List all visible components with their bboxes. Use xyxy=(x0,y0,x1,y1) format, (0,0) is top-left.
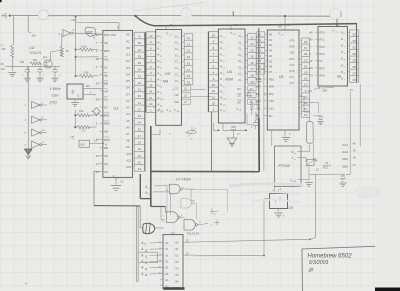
svg-text:V: V xyxy=(332,29,334,33)
svg-text:14: 14 xyxy=(169,111,171,113)
bus line heavy vertical to decoder xyxy=(150,126,152,206)
cpu U1 left pin DB xyxy=(100,146,108,150)
rs232 port box xyxy=(275,146,302,186)
svg-text:23: 23 xyxy=(212,102,216,106)
svg-text:OE: OE xyxy=(237,100,241,104)
svg-text:A11: A11 xyxy=(126,158,131,162)
transistor Q1 xyxy=(43,55,52,68)
cpu U1 left pin ML xyxy=(100,73,109,78)
ram U3 Vcc pin xyxy=(166,32,172,37)
nand gate U7A xyxy=(170,184,228,211)
scanner margin right strip xyxy=(376,0,400,291)
svg-text:A5: A5 xyxy=(126,119,130,123)
svg-text:15: 15 xyxy=(187,55,191,59)
svg-text:CA2: CA2 xyxy=(342,150,348,154)
svg-text:18: 18 xyxy=(304,40,308,44)
svg-text:13: 13 xyxy=(138,114,142,118)
svg-text:21: 21 xyxy=(149,96,153,100)
svg-text:XT1: XT1 xyxy=(290,76,295,79)
svg-text:D5: D5 xyxy=(258,59,262,63)
wire RxD to U5 xyxy=(298,145,310,152)
ram U3 right data pins xyxy=(175,34,184,83)
acia U5 ground below xyxy=(282,130,291,142)
svg-text:D4: D4 xyxy=(269,54,273,58)
resistor 10K to NMI xyxy=(74,109,105,118)
svg-text:VP: VP xyxy=(104,89,108,93)
svg-text:38: 38 xyxy=(96,57,100,61)
label 74LS139 xyxy=(171,231,199,236)
svg-text:D6: D6 xyxy=(258,65,262,69)
svg-text:F2: F2 xyxy=(309,59,313,63)
wire U5 CS down to U9 xyxy=(272,130,274,194)
wire +5 drop to U5 Vcc xyxy=(284,16,286,30)
svg-text:7: 7 xyxy=(344,79,345,81)
title block border xyxy=(302,246,375,291)
svg-text:1K: 1K xyxy=(66,49,70,53)
svg-text:X2: X2 xyxy=(104,98,108,102)
svg-text:29: 29 xyxy=(138,54,142,58)
svg-text:17: 17 xyxy=(250,67,254,71)
svg-text:15: 15 xyxy=(250,55,254,59)
wire U4 Vpp down xyxy=(247,114,253,125)
svg-text:RC: RC xyxy=(269,114,273,118)
svg-text:V: V xyxy=(278,32,280,36)
svg-text:R/W: R/W xyxy=(319,73,325,77)
svg-text:DTR: DTR xyxy=(290,40,295,43)
resistor R1 1M xyxy=(1,43,14,57)
svg-text:15: 15 xyxy=(287,23,291,27)
svg-text:18: 18 xyxy=(250,73,254,77)
title text Homebrew 6502 xyxy=(308,253,353,259)
svg-text:U6: U6 xyxy=(337,75,341,79)
svg-text:CS0: CS0 xyxy=(269,99,275,103)
svg-text:28: 28 xyxy=(234,23,238,27)
svg-text:21: 21 xyxy=(316,168,319,172)
wire U3 WE to bus xyxy=(191,90,212,97)
svg-text:15: 15 xyxy=(96,154,100,158)
svg-text:12: 12 xyxy=(304,83,308,87)
node +5 junction dot xyxy=(9,15,11,17)
svg-text:18: 18 xyxy=(138,141,142,145)
svg-text:R/W: R/W xyxy=(104,138,110,142)
svg-text:D: D xyxy=(341,37,343,41)
svg-text:D1: D1 xyxy=(269,38,273,42)
svg-text:(R): (R) xyxy=(1,62,5,66)
svg-text:D4: D4 xyxy=(258,54,262,58)
svg-text:RST: RST xyxy=(87,31,93,35)
svg-text:PC2: PC2 xyxy=(319,45,325,49)
rom U4 control pins NC CE OE Vpp xyxy=(236,86,256,112)
svg-text:PC3: PC3 xyxy=(319,52,325,56)
svg-text:jp: jp xyxy=(308,267,313,273)
svg-text:24: 24 xyxy=(212,89,216,93)
svg-text:19: 19 xyxy=(304,71,308,75)
box around A11 A13 labels xyxy=(138,252,157,262)
capacitor on U5 clock line with ground xyxy=(313,116,324,125)
svg-text:+5: +5 xyxy=(2,14,8,20)
node junction at U5 power drop xyxy=(284,15,286,17)
wire U3 ground drop xyxy=(151,129,171,136)
svg-text:30: 30 xyxy=(138,41,142,45)
svg-text:D5: D5 xyxy=(126,79,130,83)
svg-text:Can: Can xyxy=(52,94,59,98)
misc marks right of gates xyxy=(210,209,220,228)
svg-text:U4: U4 xyxy=(227,70,232,74)
svg-text:V: V xyxy=(166,32,168,36)
svg-text:16: 16 xyxy=(250,61,254,65)
svg-text:TOUCH: TOUCH xyxy=(29,51,42,55)
svg-text:PT232: PT232 xyxy=(279,164,291,168)
cpu U1 right pin number ladder xyxy=(134,32,144,171)
svg-text:16: 16 xyxy=(187,61,191,65)
decoder U8 output O2 pin 13 xyxy=(183,252,194,255)
svg-text:22: 22 xyxy=(138,160,142,164)
ram U3 control pins CS OE WE xyxy=(172,86,191,105)
svg-text:23: 23 xyxy=(138,74,142,78)
svg-text:RES: RES xyxy=(269,77,275,81)
svg-text:21: 21 xyxy=(212,95,216,99)
oscillator can module 1MHz xyxy=(67,84,83,99)
label A15 input xyxy=(145,184,169,190)
svg-text:D0: D0 xyxy=(126,46,130,50)
decoder U8 left inputs from address bus xyxy=(141,241,164,277)
wire U1 pin down to bottom rail xyxy=(94,172,140,206)
svg-text:XT2: XT2 xyxy=(290,82,295,85)
svg-text:9/3/2003: 9/3/2003 xyxy=(309,260,329,266)
inverter chain gate 2 xyxy=(25,116,48,123)
svg-text:39: 39 xyxy=(96,97,100,101)
resistor 52K to SO pin xyxy=(76,45,99,52)
via U6 VP label xyxy=(336,23,340,27)
cpu U1 left pin EB xyxy=(96,81,108,86)
svg-text:R/W: R/W xyxy=(256,85,262,89)
svg-text:D1: D1 xyxy=(126,53,130,57)
svg-text:P.B.: P.B. xyxy=(20,60,25,64)
svg-text:S0: S0 xyxy=(104,41,108,45)
svg-text:R: R xyxy=(292,150,294,154)
connector KB box xyxy=(79,140,107,147)
wire Gnd to ground xyxy=(298,179,309,181)
capacitor at right of select line xyxy=(341,174,345,182)
wire +5 drop to U6 Vcc xyxy=(336,19,338,27)
svg-text:D6: D6 xyxy=(269,65,273,69)
svg-text:D: D xyxy=(341,63,343,67)
svg-text:D0: D0 xyxy=(269,33,273,37)
wire bus to big gate xyxy=(139,206,141,227)
cpu U1 left pin S0 xyxy=(96,41,108,45)
svg-text:24: 24 xyxy=(350,88,354,92)
eraser smudge marks xyxy=(230,184,380,202)
svg-text:1M: 1M xyxy=(32,34,37,38)
svg-text:A8: A8 xyxy=(309,30,313,34)
svg-text:WE: WE xyxy=(175,100,180,104)
svg-text:D: D xyxy=(341,50,343,54)
ram U3 right pin number ladder xyxy=(184,34,193,85)
svg-text:30: 30 xyxy=(353,52,357,56)
svg-text:0: 0 xyxy=(344,34,345,36)
svg-text:11: 11 xyxy=(138,101,141,105)
svg-text:27: 27 xyxy=(353,72,357,76)
cpu U1 left pin IRQ xyxy=(96,113,110,118)
svg-text:14: 14 xyxy=(96,162,100,166)
ground below inverter chain xyxy=(25,145,33,159)
balloon note RST xyxy=(85,27,96,38)
cpu U1 left pin RST Vdd xyxy=(96,33,116,37)
svg-text:RXD: RXD xyxy=(290,70,295,73)
svg-text:A: A xyxy=(309,45,311,49)
label 15 above U5 xyxy=(287,23,291,27)
acia U5 label center xyxy=(279,75,283,79)
wire Vcc drop to U3 xyxy=(166,23,173,30)
svg-text:+5: +5 xyxy=(70,136,74,140)
svg-text:D: D xyxy=(341,76,343,80)
svg-text:V: V xyxy=(113,174,115,178)
ground below trimmer xyxy=(305,166,313,186)
svg-text:U5: U5 xyxy=(279,75,283,79)
wire 1K to inverter input xyxy=(61,33,63,46)
svg-text:D5: D5 xyxy=(269,59,273,63)
crystal X1 1.8432MHz xyxy=(306,112,313,148)
svg-text:6: 6 xyxy=(344,73,345,75)
svg-text:150: 150 xyxy=(33,58,38,62)
svg-text:NMI: NMI xyxy=(104,122,109,126)
svg-text:11: 11 xyxy=(187,36,190,40)
svg-text:13: 13 xyxy=(187,49,191,53)
inverter gate to RST xyxy=(59,28,75,37)
svg-text:D7: D7 xyxy=(269,70,273,74)
svg-text:29: 29 xyxy=(353,58,357,62)
ground below oscillator xyxy=(71,99,79,106)
svg-text:17: 17 xyxy=(304,107,308,111)
+5V label xyxy=(2,14,8,20)
svg-text:CS1: CS1 xyxy=(269,107,275,111)
wire IO select to U9 xyxy=(194,199,270,257)
svg-text:ROM: ROM xyxy=(226,78,234,82)
decoder U8 body xyxy=(163,235,183,289)
svg-text:D6: D6 xyxy=(126,86,130,90)
address bus vertical at U8 xyxy=(137,207,139,283)
cpu U1 left pin AB xyxy=(100,130,108,134)
svg-text:A5: A5 xyxy=(104,154,108,158)
diamond connector node xyxy=(91,108,100,116)
ram U3 body xyxy=(156,30,182,126)
svg-text:10a: 10a xyxy=(79,109,84,113)
ground below U9 xyxy=(274,209,285,219)
acia U5 Vcc pin xyxy=(278,32,284,37)
via U6 CA CB pin list xyxy=(342,141,356,168)
ram U3 left pin labels A0-A12 xyxy=(157,34,163,114)
label A14 input xyxy=(145,190,169,196)
cpu U1 left pin SY xyxy=(100,106,108,110)
svg-text:U7 74S00: U7 74S00 xyxy=(176,178,191,182)
svg-text:11: 11 xyxy=(250,36,253,40)
svg-text:D: D xyxy=(341,57,343,61)
small components on U5 select lines xyxy=(247,90,268,129)
svg-text:1M: 1M xyxy=(1,47,6,51)
svg-text:PC1: PC1 xyxy=(319,38,325,42)
svg-text:CS1: CS1 xyxy=(256,106,262,110)
capacitor C3 with ground xyxy=(52,66,62,81)
svg-text:3: 3 xyxy=(344,53,345,55)
bus line vertical beside U1 ladder xyxy=(144,33,146,171)
via U6 Vcc pin xyxy=(332,29,338,34)
svg-text:D2: D2 xyxy=(269,43,273,47)
svg-text:(V2): (V2) xyxy=(50,101,58,105)
svg-text:12: 12 xyxy=(304,113,308,117)
svg-text:EB: EB xyxy=(104,81,108,85)
svg-text:A9: A9 xyxy=(126,145,130,149)
svg-text:NC: NC xyxy=(237,87,241,91)
rom U4 right data pins xyxy=(238,34,248,83)
svg-text:A10: A10 xyxy=(126,152,131,156)
svg-text:G: G xyxy=(291,178,293,182)
svg-text:SO: SO xyxy=(104,57,109,61)
svg-text:32: 32 xyxy=(353,39,357,43)
svg-text:A4: A4 xyxy=(126,112,130,116)
svg-text:Q1: Q1 xyxy=(43,55,47,59)
via U6 bottom annotations xyxy=(309,88,354,94)
ground right of select line xyxy=(339,183,346,186)
svg-text:CE: CE xyxy=(237,94,241,98)
bus vertical between U4 and U5 xyxy=(259,28,264,172)
wire inverter chain input bus xyxy=(27,67,29,146)
svg-text:MA: MA xyxy=(163,80,169,84)
svg-text:C4: C4 xyxy=(325,161,329,165)
wire inverter out to U1 RST pin xyxy=(73,33,102,34)
svg-text:14: 14 xyxy=(138,121,142,125)
nand gate U7B (faint) xyxy=(178,198,197,218)
svg-text:A2: A2 xyxy=(126,99,130,103)
wire ROM select to U5/U6 xyxy=(194,190,316,242)
wire U9 top power xyxy=(279,189,283,194)
svg-text:13: 13 xyxy=(161,111,163,113)
acia U5 right pin stubs xyxy=(299,40,302,113)
svg-text:24: 24 xyxy=(149,90,153,94)
cpu U1 left pin X1 xyxy=(96,65,108,69)
svg-text:D3: D3 xyxy=(258,48,262,52)
svg-text:34: 34 xyxy=(96,138,100,142)
acia U5 label top xyxy=(278,25,282,29)
trimmer component box xyxy=(306,159,318,167)
svg-text:20: 20 xyxy=(138,154,142,158)
ground below R1 xyxy=(8,73,16,77)
svg-text:19: 19 xyxy=(187,80,191,84)
label PB xyxy=(20,60,25,64)
svg-text:4: 4 xyxy=(344,60,345,62)
svg-text:A: A xyxy=(309,52,311,56)
svg-text:RS: RS xyxy=(309,66,313,70)
svg-text:23: 23 xyxy=(138,167,142,171)
svg-text:31: 31 xyxy=(138,48,142,52)
wire XTL connections xyxy=(299,97,319,160)
acia U5 right pin number ladder xyxy=(302,38,310,117)
svg-text:21: 21 xyxy=(304,58,308,62)
label R2 1W xyxy=(1,62,5,71)
svg-text:T: T xyxy=(292,156,294,160)
wire 1M pullup stub with hook xyxy=(28,16,36,38)
rom U4 bottom wires xyxy=(214,123,247,131)
ram U3 bottom pins A13 Vss xyxy=(153,106,180,113)
svg-text:2: 2 xyxy=(344,47,345,49)
svg-text:KB: KB xyxy=(81,143,85,147)
svg-text:D7: D7 xyxy=(258,70,262,74)
svg-text:TXD: TXD xyxy=(290,52,295,55)
capacitor C2 with ground xyxy=(37,66,46,81)
cpu U1 left pin A3 xyxy=(96,170,108,174)
svg-text:2K: 2K xyxy=(315,159,318,163)
decoder U8 bottom bar xyxy=(164,287,185,290)
svg-text:13: 13 xyxy=(250,48,254,52)
svg-text:AB: AB xyxy=(104,130,108,134)
svg-text:26: 26 xyxy=(353,78,357,82)
label U7 74S00 xyxy=(176,178,191,182)
black corner mark top-left xyxy=(0,0,2,2)
wire select line horizontal xyxy=(310,174,345,190)
svg-text:19: 19 xyxy=(138,147,142,151)
rom U4 body xyxy=(218,29,245,123)
svg-text:22: 22 xyxy=(138,81,142,85)
acia U5 data pins D0-D7 with boxed labels xyxy=(257,32,273,74)
rom U4 left pin number ladder xyxy=(208,32,218,112)
svg-text:1 MHz: 1 MHz xyxy=(50,87,61,91)
rom U4 label xyxy=(226,70,234,82)
svg-text:17: 17 xyxy=(304,46,308,50)
label pin 21 xyxy=(316,168,319,172)
svg-text:1: 1 xyxy=(344,40,345,42)
svg-text:ML: ML xyxy=(104,73,108,77)
svg-text:23: 23 xyxy=(149,102,153,106)
svg-text:IRQ: IRQ xyxy=(269,92,274,96)
cpu U1 left pin VP xyxy=(100,89,108,94)
svg-text:10: 10 xyxy=(149,34,153,38)
cpu U1 right pin stubs xyxy=(126,33,134,169)
wire U6 data bus down right xyxy=(359,84,361,146)
wire +5 to R1 xyxy=(13,16,15,45)
svg-text:74LS139: 74LS139 xyxy=(187,232,200,236)
cpu U1 left pin A5 xyxy=(96,154,108,158)
svg-text:A3: A3 xyxy=(104,170,108,174)
svg-text:19: 19 xyxy=(250,80,254,84)
ground under U4 xyxy=(227,130,237,146)
wire oscillator clock out to U1 xyxy=(83,84,102,95)
chip U9 body xyxy=(270,190,288,209)
svg-text:20: 20 xyxy=(304,64,308,68)
svg-text:U5: U5 xyxy=(278,25,282,29)
title initials JP xyxy=(308,267,313,273)
resistor 1K pull-up xyxy=(60,46,69,57)
svg-text:D3: D3 xyxy=(126,66,130,70)
svg-text:17: 17 xyxy=(187,68,191,72)
node dot mid xyxy=(75,56,77,58)
wire +5 short feed lower xyxy=(74,110,76,128)
node junction at U1 power drop xyxy=(134,15,136,17)
svg-text:U3: U3 xyxy=(165,72,170,76)
cpu U1 left pin A4 xyxy=(96,162,108,166)
svg-text:A12: A12 xyxy=(126,165,131,169)
small caps on U5 left control lines xyxy=(255,78,261,121)
svg-text:33: 33 xyxy=(353,32,357,36)
bus jog to decoder section xyxy=(140,174,165,213)
svg-text:3.3K: 3.3K xyxy=(83,71,89,75)
nand gate U7D xyxy=(184,220,208,231)
svg-text:CB1: CB1 xyxy=(342,157,348,161)
svg-text:15: 15 xyxy=(304,77,308,81)
rom U4 left address pin labels xyxy=(220,34,226,113)
svg-text:25: 25 xyxy=(212,83,216,87)
acia U5 body xyxy=(267,30,299,130)
svg-text:248: 248 xyxy=(322,89,327,93)
svg-text:CS: CS xyxy=(309,73,313,77)
